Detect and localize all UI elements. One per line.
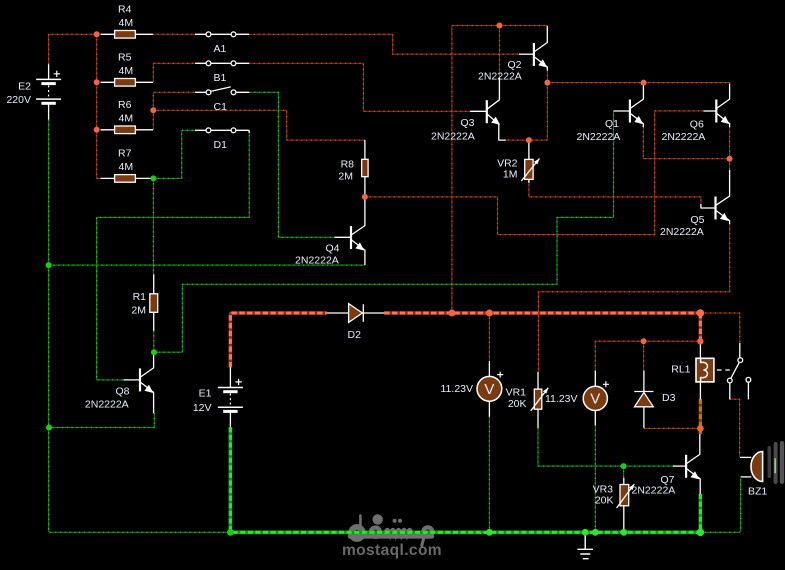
transistor Q6: [704, 84, 730, 127]
node junction Q7 base/VR3: [621, 463, 627, 469]
svg-text:E1: E1: [199, 388, 212, 400]
svg-text:VR1: VR1: [506, 387, 527, 399]
diode D2: [349, 304, 364, 323]
wire D1 to Q8 base: [97, 130, 250, 380]
lead E2: [48, 64, 50, 119]
lead R6: [101, 129, 154, 131]
svg-text:R7: R7: [118, 148, 132, 160]
node junction Q2/Q3 collectors: [497, 23, 503, 29]
svg-text:20K: 20K: [508, 398, 527, 410]
wire voltmeter M2 to ground rail: [594, 425, 596, 532]
resistor R5: [115, 79, 136, 87]
resistor R8: [362, 159, 368, 176]
node junction R6: [94, 127, 100, 133]
svg-text:C1: C1: [214, 101, 228, 113]
svg-text:VR2: VR2: [497, 157, 518, 169]
lead VR3: [623, 478, 625, 533]
wire Q8 collector to Q1 base: [154, 111, 614, 352]
lead VR2: [528, 140, 530, 183]
wire negative to Q4 emitter: [49, 264, 365, 266]
svg-text:2M: 2M: [131, 304, 146, 316]
svg-text:Q1: Q1: [605, 118, 619, 130]
wire R8 node to Q6 base: [365, 111, 704, 235]
svg-text:220V: 220V: [6, 94, 31, 106]
wire R5 to B1: [153, 63, 195, 82]
svg-text:2N2222A: 2N2222A: [85, 399, 129, 411]
svg-text:11.23V: 11.23V: [441, 383, 474, 395]
svg-text:2M: 2M: [338, 171, 353, 183]
svg-text:RL1: RL1: [671, 364, 690, 376]
wire VR2 bottom to Q5 base: [529, 180, 701, 204]
lead E1: [229, 367, 231, 427]
wire Q6 emitter to node: [729, 127, 731, 159]
relay RL1 coil: [696, 358, 714, 382]
svg-text:4M: 4M: [119, 161, 134, 173]
wire node to Q6 collector: [547, 83, 729, 84]
node junction Q1 collector: [641, 80, 647, 86]
svg-text:V: V: [590, 391, 600, 408]
lead A1: [195, 33, 249, 35]
transistor Q8: [124, 352, 154, 413]
thick wire Q7 emitter to ground rail: [699, 494, 703, 532]
lead VR1: [537, 372, 539, 428]
svg-text:2N2222A: 2N2222A: [662, 131, 706, 143]
wire node to Q3 collector: [499, 26, 501, 79]
svg-text:R5: R5: [118, 52, 132, 64]
lead R5: [101, 81, 154, 83]
node junction negative bus B: [46, 425, 52, 431]
node junction relay coil top: [697, 338, 703, 344]
node junction Q5/Q6: [727, 156, 733, 162]
svg-text:Q6: Q6: [690, 119, 704, 131]
switch A1: [206, 32, 236, 37]
svg-text:2N2222A: 2N2222A: [295, 255, 339, 267]
svg-text:Q8: Q8: [115, 386, 129, 398]
lead BZ1 bottom: [741, 476, 752, 478]
lead R8 bottom: [364, 177, 366, 197]
switch D1: [206, 128, 236, 133]
buzzer BZ1: [751, 452, 763, 482]
wire voltmeter M1 to ground rail: [488, 416, 490, 532]
svg-text:D3: D3: [662, 392, 676, 404]
lead R8 top: [364, 140, 366, 159]
wire node to VR3 top: [623, 466, 625, 478]
wire voltmeter M2 top to node: [595, 341, 643, 371]
wire R7 node to R1 top: [152, 178, 154, 274]
wire E2 negative down: [48, 120, 50, 266]
transistor Q2: [519, 26, 547, 71]
transistor Q3: [470, 78, 506, 140]
node junction Q7 collector/D3: [697, 425, 704, 432]
lead D3: [643, 371, 645, 428]
wire Q2 collector supply: [452, 26, 547, 314]
lead relay contact top: [739, 343, 741, 358]
diode D3: [634, 392, 653, 407]
svg-text:A1: A1: [214, 43, 227, 55]
wire R6 to C1: [153, 92, 195, 130]
svg-text:BZ1: BZ1: [748, 485, 767, 497]
wire node to VR2 top: [528, 140, 530, 160]
lead relay common: [729, 383, 731, 399]
svg-text:4M: 4M: [119, 65, 134, 77]
svg-text:4M: 4M: [119, 17, 134, 29]
wire node to R8 top: [153, 110, 365, 140]
node junction ground rail E1: [227, 529, 234, 536]
wire relay common to BZ1: [730, 399, 740, 457]
relay RL1 link dashes: [717, 369, 730, 371]
svg-text:mostaql.com: mostaql.com: [342, 542, 442, 559]
transistor Q1: [614, 84, 644, 127]
transistor Q5: [701, 170, 730, 224]
relay RL1 switch: [727, 358, 750, 383]
wire Q8 emitter to negative bus: [49, 413, 154, 428]
voltmeter M1: [477, 372, 503, 402]
svg-text:11.23V: 11.23V: [545, 393, 578, 405]
node junction ground rail M2: [592, 529, 599, 536]
svg-text:R1: R1: [133, 291, 147, 303]
node junction ground rail VR3: [620, 529, 627, 536]
node junction R8/Q4 collector: [362, 194, 368, 200]
lead R7: [101, 177, 154, 179]
node junction VR2 top: [526, 137, 532, 143]
thick wire D2 cathode supply rail: [384, 311, 700, 315]
svg-text:R4: R4: [118, 4, 132, 16]
thick wire supply to relay coil node: [699, 313, 703, 341]
svg-text:D1: D1: [214, 139, 228, 151]
watermark: [350, 514, 432, 545]
node junction Q2 emitter: [544, 80, 550, 86]
svg-text:B1: B1: [214, 72, 227, 84]
thick wire E1 negative ground rail: [230, 427, 700, 532]
svg-text:2N2222A: 2N2222A: [660, 226, 704, 238]
wire R7 node to D1: [153, 130, 195, 178]
node junction supply rail B: [486, 310, 493, 317]
wire supply to voltmeter M1: [488, 313, 490, 362]
lead R4: [101, 33, 153, 35]
svg-text:E2: E2: [18, 81, 31, 93]
switch B1: [206, 61, 236, 66]
wire supply to relay contact: [700, 313, 739, 343]
wire VR1 bottom to Q7 base: [538, 428, 673, 466]
node junction ground rail ground: [582, 529, 589, 536]
resistor R1: [150, 294, 158, 313]
node junction supply rail A: [448, 310, 455, 317]
wire node to relay node: [644, 340, 701, 342]
svg-text:Q3: Q3: [460, 117, 474, 129]
wire negative bus mid: [48, 265, 50, 427]
svg-text:12V: 12V: [193, 402, 212, 414]
resistor R6: [115, 126, 136, 134]
wire left supply bus vertical: [97, 34, 101, 178]
wire R1 bottom to node: [153, 331, 155, 353]
lead C1: [195, 91, 249, 93]
resistor R7: [115, 175, 136, 183]
svg-text:2N2222A: 2N2222A: [577, 131, 621, 143]
node junction R4/E2: [94, 31, 100, 37]
lead R1: [153, 274, 155, 331]
wire Q2 emitter to node: [546, 70, 548, 83]
svg-text:2N2222A: 2N2222A: [431, 131, 475, 143]
buzzer BZ1 sound waves: [768, 441, 785, 484]
svg-text:Q5: Q5: [690, 214, 704, 226]
wire D3 anode to Q7 collector node: [644, 427, 699, 429]
lead BZ1 top: [740, 456, 752, 458]
svg-text:1M: 1M: [503, 169, 518, 181]
wire node to Q3 emitter: [506, 83, 548, 141]
wire A1 to Q2 base: [236, 34, 519, 54]
node junction R5: [94, 79, 100, 85]
wire B1 to Q3 base: [249, 63, 470, 111]
svg-text:Q2: Q2: [507, 59, 521, 71]
variable resistor VR2: [521, 159, 539, 182]
node junction R1/Q8 collector: [151, 349, 157, 355]
wire node to Q5 collector: [729, 159, 731, 170]
lead D1: [195, 130, 249, 133]
node junction R6/C1 branch: [150, 107, 156, 113]
transistor Q4: [335, 197, 365, 265]
node junction ground rail Q7: [697, 529, 705, 537]
node junction supply rail relay: [697, 309, 705, 317]
wire Q5 emitter to VR1 top: [538, 224, 729, 372]
transistor Q7: [673, 434, 700, 494]
wire node to Q1 collector stub: [643, 83, 645, 84]
svg-text:4M: 4M: [119, 113, 134, 125]
svg-text:V: V: [484, 381, 494, 398]
variable resistor VR1: [531, 388, 549, 411]
wire E2 positive to node bus: [49, 34, 97, 64]
lead voltmeter M1: [488, 361, 490, 416]
voltmeter M2: [583, 381, 609, 410]
svg-text:Q4: Q4: [325, 243, 339, 255]
node junction R7/D1: [150, 175, 156, 181]
lead D2: [327, 312, 384, 314]
switch C1: [206, 87, 236, 95]
node junction negative bus A: [46, 262, 52, 268]
svg-text:R6: R6: [118, 99, 132, 111]
lead voltmeter M2: [594, 371, 596, 425]
resistor R4: [115, 31, 136, 39]
wire negative bus to ground rail: [49, 428, 231, 533]
wire ground rail to BZ1: [700, 479, 740, 533]
wire R4 to A1: [153, 33, 195, 35]
node junction ground rail M1: [486, 529, 493, 536]
wire Q1 emitter to node: [643, 127, 729, 159]
battery E2: [36, 71, 61, 104]
variable resistor VR3: [617, 484, 635, 508]
lead RL1 coil: [699, 343, 701, 399]
lead relay open contact stub: [747, 382, 749, 399]
svg-text:D2: D2: [348, 329, 362, 341]
thick wire E1 positive to D2 anode: [230, 313, 326, 367]
svg-text:2N2222A: 2N2222A: [632, 485, 676, 497]
ground: [577, 532, 593, 558]
wire node to D3 cathode: [643, 341, 645, 371]
battery E1: [218, 379, 243, 412]
wire C1 to Q4 base: [249, 92, 334, 237]
thick wire relay coil to Q7 collector: [699, 399, 702, 434]
svg-text:20K: 20K: [595, 495, 614, 507]
lead B1: [195, 62, 249, 64]
node junction D3 top: [641, 338, 647, 344]
svg-text:R8: R8: [341, 159, 355, 171]
